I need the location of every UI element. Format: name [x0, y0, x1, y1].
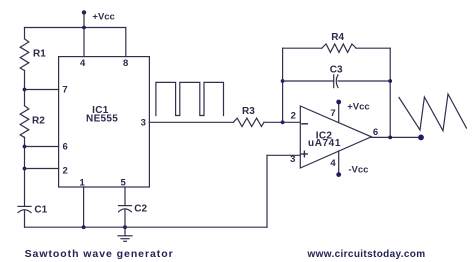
svg-text:5: 5	[121, 178, 127, 189]
wire node7 to R2	[24, 90, 26, 106]
wire to pin 7	[25, 89, 59, 91]
IC1 NE555 body	[59, 57, 150, 187]
svg-text:R4: R4	[331, 32, 344, 43]
svg-text:Sawtooth wave generator: Sawtooth wave generator	[25, 248, 174, 260]
svg-text:2: 2	[63, 165, 68, 176]
junction output feedback	[388, 136, 392, 140]
capacitor C2	[119, 206, 132, 212]
wire R2 bottom down to C1	[24, 137, 26, 206]
junction at +Vcc rail	[82, 26, 86, 30]
svg-text:7: 7	[330, 108, 335, 119]
capacitor C3	[334, 75, 338, 88]
wire left column top (rail to R1)	[24, 28, 26, 39]
wire bottom rail	[25, 226, 268, 228]
wire to pin 2	[25, 168, 59, 170]
junction node pin7	[23, 88, 27, 92]
svg-text:7: 7	[62, 85, 67, 96]
junction pin1 bottom	[82, 225, 86, 229]
svg-text:NE555: NE555	[86, 114, 118, 125]
node -Vcc op-amp	[336, 172, 341, 177]
junction node pin2	[23, 167, 27, 171]
node +Vcc top supply	[82, 10, 86, 27]
wire to pin 6	[25, 146, 59, 148]
svg-text:8: 8	[123, 58, 128, 69]
wire C3 row right	[338, 80, 390, 82]
wire non-inverting input horizontal	[267, 154, 300, 156]
wire feedback left vertical	[282, 48, 284, 122]
svg-text:C1: C1	[34, 205, 47, 216]
wire op-amp output	[371, 136, 421, 138]
resistor R2	[20, 106, 29, 138]
node +Vcc op-amp	[336, 100, 341, 105]
svg-text:+Vcc: +Vcc	[92, 11, 114, 22]
wire pin 7 to +Vcc	[338, 102, 340, 123]
plus sign non-inverting input	[302, 151, 308, 157]
wire pin 3 output of IC1	[149, 121, 233, 123]
svg-text:4: 4	[330, 158, 336, 169]
svg-text:R2: R2	[32, 116, 45, 127]
svg-text:6: 6	[373, 127, 378, 138]
svg-text:R1: R1	[33, 49, 46, 60]
node output terminal	[418, 135, 424, 141]
wire R4 row right	[356, 47, 390, 49]
svg-text:+Vcc: +Vcc	[347, 102, 369, 113]
square wave symbol	[156, 82, 224, 115]
op-amp U1 IC2 triangle	[300, 106, 371, 168]
wire R1 bottom to node 7	[24, 70, 26, 89]
resistor R4	[322, 44, 356, 52]
resistor R1	[20, 39, 29, 71]
wire pin 8 to rail	[125, 28, 127, 57]
wire top rail	[25, 27, 126, 29]
wire pin 4 to -Vcc	[338, 151, 340, 175]
minus sign inverting input	[302, 123, 307, 125]
svg-text:uA741: uA741	[308, 138, 341, 149]
wire C2 bottom to rail	[124, 210, 126, 227]
junction C3 left	[281, 79, 285, 83]
svg-text:1: 1	[80, 178, 86, 189]
svg-text:6: 6	[63, 142, 68, 153]
wire pin 5 to C2	[124, 187, 126, 206]
ground	[118, 227, 132, 241]
svg-text:3: 3	[141, 118, 146, 129]
wire pin 1 to bottom rail	[83, 187, 85, 227]
junction C3 right	[388, 79, 392, 83]
wire C1 bottom to ground rail	[24, 211, 26, 227]
capacitor C1	[18, 206, 31, 212]
wire R4 row left	[283, 47, 322, 49]
junction node A (inverting input)	[281, 120, 285, 124]
wire R3 to node A	[264, 121, 300, 123]
wire non-inverting input vertical	[266, 155, 268, 227]
wire C3 row left	[283, 80, 334, 82]
svg-text:C3: C3	[330, 65, 343, 76]
svg-text:C2: C2	[134, 203, 147, 214]
svg-text:2: 2	[291, 110, 296, 121]
sawtooth wave symbol	[399, 94, 466, 131]
junction node pin6	[23, 145, 27, 149]
junction ground node	[123, 225, 127, 229]
resistor R3	[233, 118, 264, 126]
svg-text:R3: R3	[242, 106, 255, 117]
wire pin 4 to rail	[83, 28, 85, 57]
svg-text:www.circuitstoday.com: www.circuitstoday.com	[307, 249, 426, 260]
wire feedback right vertical	[389, 48, 391, 137]
svg-text:4: 4	[80, 58, 86, 69]
svg-text:-Vcc: -Vcc	[348, 165, 368, 176]
